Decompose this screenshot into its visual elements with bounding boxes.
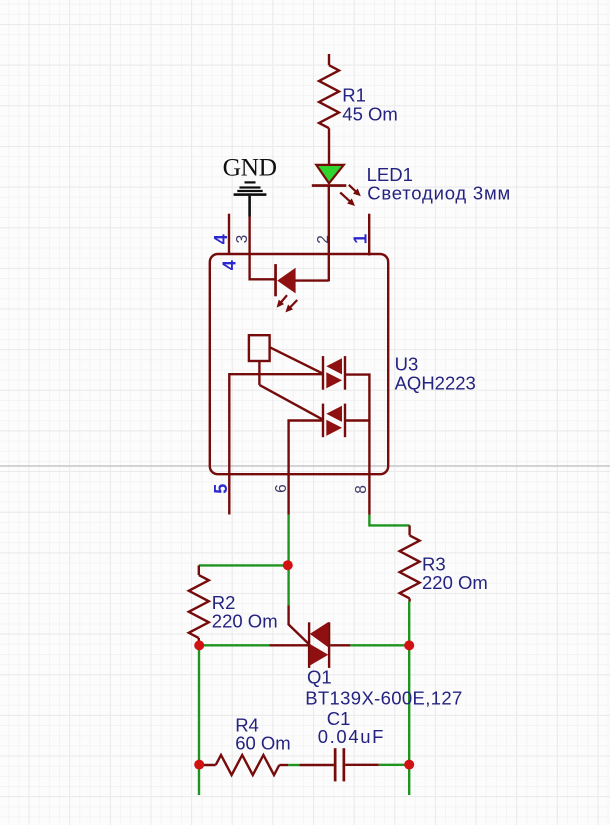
svg-text:Светодиод 3мм: Светодиод 3мм xyxy=(367,183,511,204)
svg-text:6: 6 xyxy=(273,484,290,493)
svg-text:4: 4 xyxy=(219,260,239,270)
svg-text:0.04uF: 0.04uF xyxy=(318,726,385,747)
svg-text:2: 2 xyxy=(315,235,332,244)
svg-text:Q1: Q1 xyxy=(307,667,332,688)
svg-text:8: 8 xyxy=(353,485,370,494)
svg-text:5: 5 xyxy=(211,484,231,494)
svg-text:3: 3 xyxy=(234,235,251,244)
svg-text:AQH2223: AQH2223 xyxy=(395,372,476,393)
svg-text:45 Om: 45 Om xyxy=(342,104,398,125)
svg-text:1: 1 xyxy=(350,234,370,244)
svg-text:GND: GND xyxy=(223,152,277,181)
svg-text:220 Om: 220 Om xyxy=(212,611,278,632)
svg-text:BT139X-600E,127: BT139X-600E,127 xyxy=(305,687,462,708)
svg-text:4: 4 xyxy=(211,234,231,244)
svg-text:R1: R1 xyxy=(342,85,366,106)
svg-text:220 Om: 220 Om xyxy=(422,572,488,593)
svg-text:60 Om: 60 Om xyxy=(235,732,291,753)
svg-text:U3: U3 xyxy=(395,353,419,374)
